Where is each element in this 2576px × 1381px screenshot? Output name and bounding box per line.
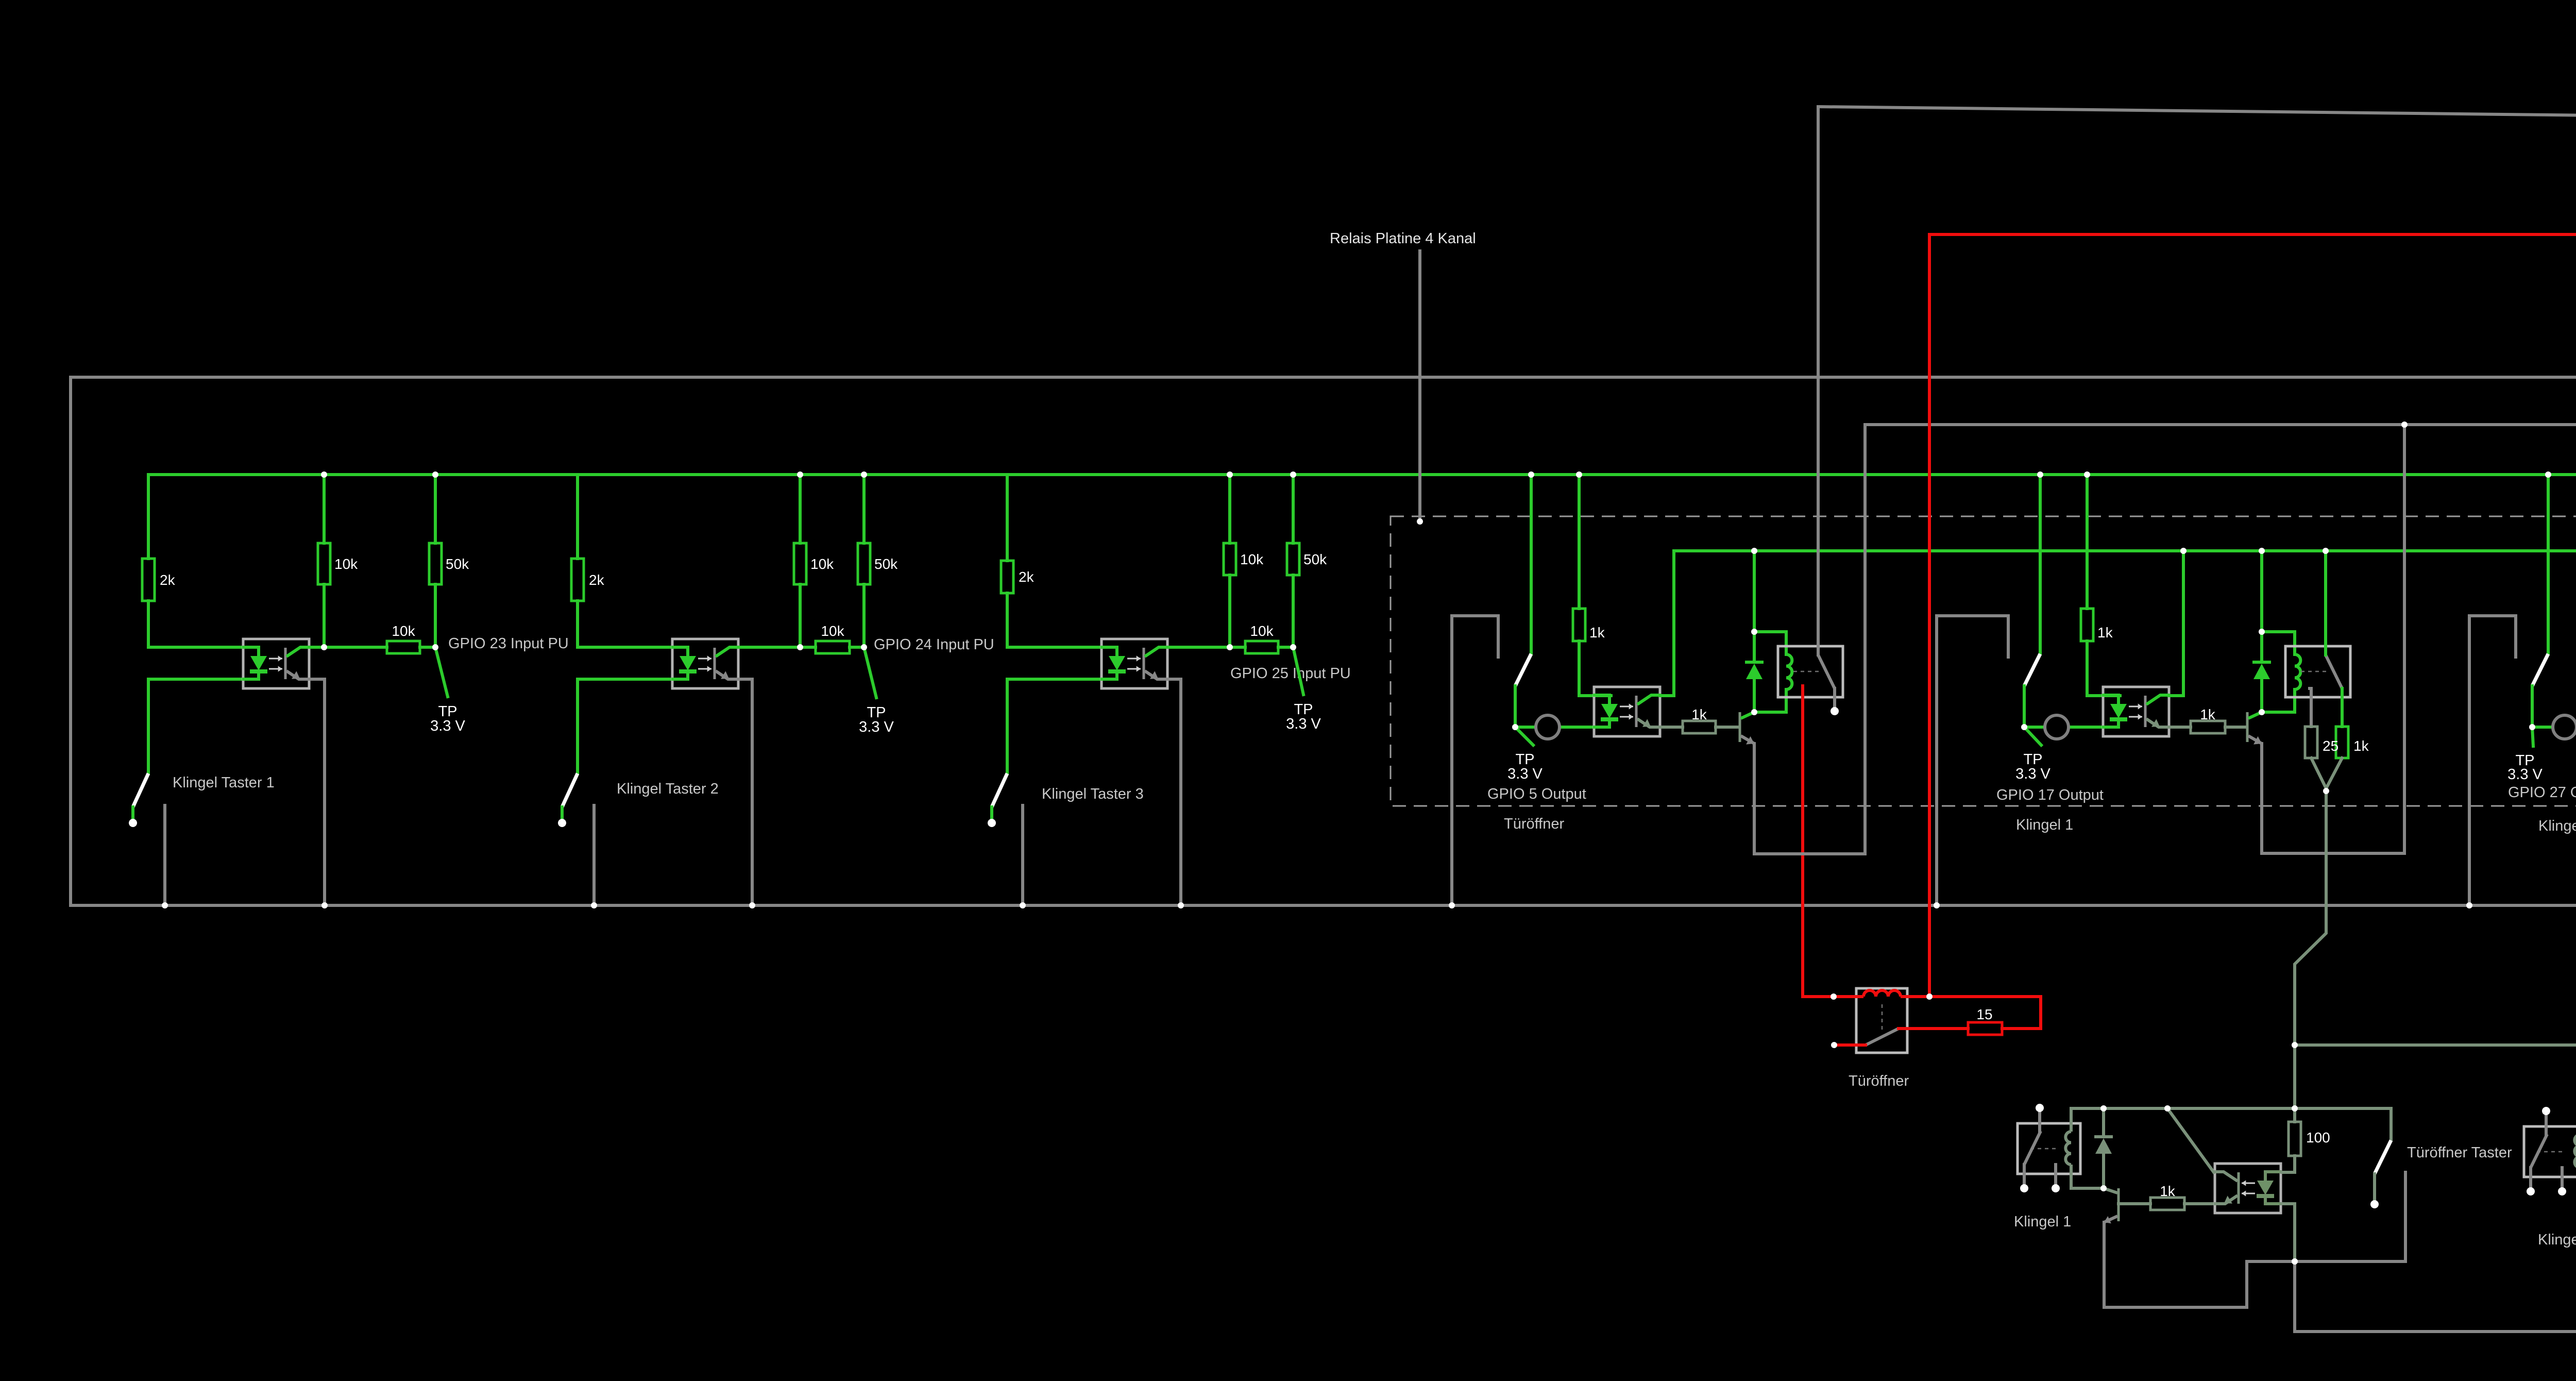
svg-text:GPIO 24 Input PU: GPIO 24 Input PU	[874, 636, 994, 653]
wire switch riser ch1	[1530, 475, 1533, 654]
svg-text:1k: 1k	[2353, 738, 2369, 754]
wire relay lever stub K1	[2023, 1165, 2026, 1185]
label TP voltage ch1	[1507, 766, 1543, 782]
svg-text:3.3 V: 3.3 V	[859, 719, 894, 735]
label TP ch1	[1515, 751, 1534, 768]
svg-text:1k: 1k	[1691, 706, 1707, 722]
node diode bottom K1	[2100, 1185, 2107, 1191]
wire 2k to opto LED KT2	[578, 601, 672, 647]
node bus junction 1k ch2	[2084, 471, 2090, 478]
wire ch2 output drop	[2295, 791, 2326, 1108]
svg-text:Klingel 2: Klingel 2	[2538, 818, 2576, 834]
svg-text:10k: 10k	[1250, 623, 1274, 639]
resistor 2k KT3	[1001, 561, 1035, 593]
node relay pin lever K1	[2020, 1184, 2028, 1192]
resistor 15	[1968, 1006, 2002, 1035]
wire diode bottom K1	[2102, 1154, 2105, 1188]
node GND5V junction ch2	[2401, 422, 2408, 428]
wire opto cathode to switch KT2	[578, 679, 672, 773]
resistor 25 output ch2	[2305, 727, 2338, 758]
wire 3.3V bus	[148, 473, 2576, 476]
wire test point lead KT3	[1293, 647, 1303, 695]
switch lever GPIO output ch3	[2532, 654, 2548, 686]
label TP voltage KT1	[430, 718, 465, 734]
resistor 1k LED ch1	[1573, 609, 1605, 641]
svg-text:3.3 V: 3.3 V	[430, 718, 465, 734]
wire emitter return U ch1	[1754, 425, 1865, 854]
node switch open post KT3	[988, 819, 996, 827]
diode flyback D1	[1745, 662, 1764, 679]
svg-text:1k: 1k	[1589, 625, 1605, 641]
label Tueroeffner relay	[1849, 1073, 1909, 1089]
wire coil bottom ch2	[2262, 689, 2295, 712]
node collector ch2	[2259, 709, 2265, 715]
svg-text:15: 15	[1976, 1006, 1992, 1022]
wire emitter return U ch2	[2262, 425, 2404, 853]
optocoupler U5 ch2	[2102, 687, 2170, 736]
relay coil ch1	[1786, 654, 1792, 689]
node diode top ch1	[1751, 629, 1757, 635]
node sense KT1	[321, 644, 327, 650]
wire 50k to GPIO node KT1	[434, 584, 437, 647]
test point probe ch1	[1536, 715, 1560, 739]
node bus junction switch ch3	[2545, 471, 2551, 478]
label Tueroeffner Taster 1	[2407, 1144, 2512, 1161]
node TP node ch3	[2529, 724, 2535, 730]
node 3.3V bus junction 10k KT1	[321, 471, 327, 478]
node relay pin top K1	[2036, 1104, 2044, 1112]
wire 1k to LED ch1	[1579, 641, 1611, 696]
switch lever Klingel Taster 3	[992, 773, 1007, 807]
svg-text:2k: 2k	[160, 572, 176, 588]
svg-text:GPIO 27 Output: GPIO 27 Output	[2508, 784, 2576, 801]
wire coil branch ch2	[2262, 632, 2295, 654]
wire diode feed ch2	[2260, 551, 2263, 632]
label Klingel Taster 1	[173, 774, 275, 791]
svg-text:Türöffner: Türöffner	[1849, 1073, 1909, 1089]
node bus junction diode ch2	[2259, 548, 2265, 554]
resistor 1k output ch2	[2336, 727, 2369, 758]
relay coil K2 bell	[2574, 1111, 2576, 1191]
node K1 cluster node	[2292, 1258, 2298, 1265]
wire relay NO stub ch1	[1833, 688, 1836, 707]
node K1 rail junction feed	[2292, 1105, 2298, 1111]
relay K1 bell	[2018, 1123, 2080, 1174]
resistor 100 K1	[2289, 1122, 2330, 1156]
node 3.3V bus junction 10k KT2	[797, 471, 803, 478]
wire 10k column KT2	[799, 475, 802, 543]
wire rail to opto diagonal K1	[2167, 1108, 2214, 1172]
wire relay lever stub K2	[2529, 1168, 2532, 1188]
wire 12V GND sloped	[1818, 107, 2576, 172]
wire base K1	[2119, 1202, 2150, 1205]
relay coil Tueroeffner	[1834, 990, 1929, 997]
wire relay NC stub K1	[2054, 1165, 2057, 1185]
wire switch throw L ch1	[1452, 616, 1498, 905]
wire switch throw to GND KT1	[163, 805, 166, 905]
wire 1k column ch1	[1578, 475, 1581, 609]
wire switch stub ch3	[2531, 686, 2534, 724]
wire switch throw to GND KT3	[1021, 805, 1024, 905]
optocoupler U3 KT3	[1100, 639, 1168, 688]
wire sense to 10k series KT3	[1230, 646, 1245, 649]
relay coil ch2	[2295, 654, 2300, 689]
svg-text:2k: 2k	[589, 572, 605, 588]
box Relais Platine 4 Kanal	[1391, 516, 2576, 806]
label TP voltage ch2	[2015, 766, 2050, 782]
resistor 1k base ch2	[2191, 706, 2225, 733]
label GPIO output ch1	[1487, 786, 1586, 802]
resistor 2k KT2	[571, 559, 605, 601]
wire switch throw L ch3	[2469, 616, 2516, 905]
node 3.3V bus junction 50k KT3	[1290, 471, 1296, 478]
svg-text:Klingel Taster 3: Klingel Taster 3	[1042, 786, 1144, 802]
wire emitter to base resistor ch2	[2170, 726, 2191, 729]
svg-text:Relais Platine 4 Kanal: Relais Platine 4 Kanal	[1330, 230, 1476, 247]
wire TT stub K1	[2373, 1174, 2376, 1201]
node Relais Platine label post	[1417, 518, 1423, 525]
wire merge V ch2	[2311, 758, 2342, 788]
wire diode feed ch1	[1753, 551, 1756, 632]
svg-text:Klingel 1: Klingel 1	[2014, 1214, 2071, 1230]
node merge ch2	[2323, 788, 2329, 794]
wire diode column ch1	[1753, 632, 1756, 662]
wire relay NC stub K2	[2561, 1168, 2564, 1188]
wire switch stub ch1	[1514, 686, 1517, 724]
svg-text:3.3 V: 3.3 V	[2507, 766, 2543, 783]
wire diode column ch2	[2260, 632, 2263, 662]
node bus junction riser ch2	[2180, 548, 2187, 554]
relay K2	[2285, 646, 2350, 697]
wire collector riser ch2	[2169, 551, 2183, 696]
wire coil branch ch1	[1754, 632, 1786, 654]
label TP voltage ch3	[2507, 766, 2543, 783]
wire NO loop with 15 ohm	[1899, 1027, 1968, 1030]
wire 10k series to GPIO KT3	[1278, 646, 1293, 649]
label TP voltage KT2	[859, 719, 894, 735]
resistor 10k pullup KT3	[1224, 543, 1264, 575]
label TP KT3	[1294, 701, 1313, 718]
node GND rail junction emitter KT2	[749, 902, 755, 908]
wire 3.3V to 2k KT2	[576, 475, 579, 559]
wire opto emitter drop KT1	[310, 679, 325, 905]
svg-text:Klingel 1: Klingel 1	[2016, 817, 2073, 833]
transistor Q1	[1740, 712, 1754, 745]
wire 10k to sense node KT3	[1228, 575, 1231, 647]
transistor Q K1	[2104, 1188, 2119, 1223]
label GPIO 24 Input PU	[874, 636, 994, 653]
label Klingel Taster 3	[1042, 786, 1144, 802]
label Relais Platine 4 Kanal	[1330, 230, 1476, 247]
label Klingel bell 1	[2014, 1214, 2071, 1230]
svg-text:10k: 10k	[334, 556, 358, 572]
wire diode to collector ch1	[1753, 679, 1756, 712]
wire 50k to GPIO node KT2	[862, 584, 866, 647]
wire 2k to opto LED KT3	[1007, 593, 1101, 647]
resistor 10k series KT1	[387, 623, 420, 653]
label channel function ch2	[2016, 817, 2073, 833]
node rail junction diagonal K1	[2164, 1105, 2171, 1111]
wire relay common ch2	[2324, 551, 2327, 655]
wire GND 5V rail	[1865, 423, 2576, 426]
wire switch stub KT3	[990, 807, 993, 820]
svg-text:GPIO 17 Output: GPIO 17 Output	[1996, 787, 2104, 803]
switch lever Tueroeffner Taster 1	[2375, 1140, 2391, 1174]
wire 10k to sense node KT1	[323, 584, 326, 647]
svg-text:3.3 V: 3.3 V	[2015, 766, 2050, 782]
wire TP lead ch1	[1515, 727, 1533, 745]
wire 50k column KT2	[862, 475, 866, 543]
resistor 50k KT1	[429, 543, 469, 584]
node switch open post KT1	[129, 819, 137, 827]
wire diode feed K1	[2102, 1108, 2105, 1137]
resistor 10k series KT2	[816, 623, 850, 653]
wire TP node to opto ch2	[2024, 726, 2103, 729]
optocoupler U4 ch1	[1593, 687, 1661, 736]
node relay pin NC K1	[2052, 1184, 2060, 1192]
wire node to throw K1	[2295, 1172, 2405, 1261]
wire 10k series to GPIO KT2	[850, 646, 864, 649]
node TP node ch2	[2021, 724, 2027, 730]
wire sense to 10k series KT1	[324, 646, 387, 649]
label GPIO 23 Input PU	[448, 635, 569, 652]
wire relay common ch1	[1817, 107, 1820, 655]
wire 12V positive	[1929, 184, 2576, 997]
wire GND left border	[69, 377, 72, 905]
wire 50k to GPIO node KT3	[1292, 575, 1295, 647]
wire 1k to LED ch2	[2087, 641, 2120, 696]
wire opto cathode to switch KT1	[148, 679, 243, 773]
node sense KT2	[797, 644, 803, 650]
wire NO loop right	[1929, 997, 2041, 1029]
wire opto emitter drop KT2	[739, 679, 752, 905]
wire emitter shelf K1	[2104, 1222, 2295, 1307]
node 3.3V bus junction 50k KT1	[432, 471, 438, 478]
test point probe ch3	[2553, 715, 2576, 739]
relay coil K1 bell	[2065, 1108, 2104, 1188]
label channel function ch3	[2538, 818, 2576, 834]
label TP voltage KT3	[1286, 716, 1321, 732]
label Klingel bell 2	[2538, 1232, 2576, 1248]
wire node drop to bottom rail K1	[2293, 1261, 2296, 1332]
wire relay pin top stub K1	[2038, 1108, 2041, 1132]
node GND rail junction ch3	[2466, 902, 2472, 908]
node relay common Tueroeffner	[1831, 1042, 1837, 1048]
relay K2 bell	[2524, 1126, 2576, 1177]
wire relay NO to 1k ch2	[2341, 688, 2344, 727]
node coil right	[1926, 993, 1933, 1000]
svg-text:1k: 1k	[2200, 706, 2216, 722]
svg-text:25: 25	[2323, 738, 2338, 754]
relay Tueroeffner	[1856, 988, 1907, 1053]
label TP ch2	[2023, 751, 2042, 768]
svg-text:Klingel Taster 1: Klingel Taster 1	[173, 774, 275, 791]
wire switch stub KT2	[561, 807, 564, 820]
node bus junction switch ch1	[1528, 471, 1534, 478]
wire 3.3V to 2k KT1	[147, 475, 150, 559]
wire relay NC to 25 ch2	[2310, 688, 2311, 727]
wire label Relais Platine lead	[1418, 251, 1421, 521]
node bus junction switch ch2	[2037, 471, 2043, 478]
resistor 50k KT2	[858, 543, 898, 584]
resistor 1k base K1	[2150, 1183, 2184, 1210]
wire TP lead ch2	[2024, 727, 2041, 745]
wire 5V bus	[1674, 549, 2576, 552]
svg-text:Türöffner: Türöffner	[1504, 816, 1564, 832]
node relay pin lever K2	[2527, 1187, 2535, 1195]
svg-text:GPIO 25 Input PU: GPIO 25 Input PU	[1230, 665, 1351, 682]
wire opto collector to node KT1	[309, 646, 324, 649]
node GPIO input KT2	[861, 644, 867, 650]
wire 10k to sense node KT2	[799, 584, 802, 647]
wire 50k column KT1	[434, 475, 437, 543]
wire 2k to opto LED KT1	[148, 601, 243, 647]
label GPIO output ch2	[1996, 787, 2104, 803]
node TT post K1	[2370, 1200, 2379, 1208]
wire 10k column KT3	[1228, 475, 1231, 543]
optocoupler K1 bell	[2214, 1164, 2282, 1213]
wire sense to 10k series KT2	[800, 646, 816, 649]
node sense KT3	[1227, 644, 1233, 650]
switch lever GPIO output ch1	[1515, 654, 1531, 686]
wire test point lead KT1	[435, 647, 448, 697]
node switch open post KT2	[558, 819, 566, 827]
wire emitter to base resistor ch1	[1661, 726, 1683, 729]
label GPIO output ch3	[2508, 784, 2576, 801]
wire switch stub ch2	[2023, 686, 2026, 724]
svg-text:10k: 10k	[1240, 551, 1264, 567]
switch lever Klingel Taster 1	[133, 773, 148, 807]
wire collector riser ch1	[1660, 551, 1674, 696]
node rail junction diode K1	[2100, 1105, 2107, 1111]
svg-text:50k: 50k	[1303, 551, 1327, 567]
svg-text:GPIO 5 Output: GPIO 5 Output	[1487, 786, 1586, 802]
resistor 10k pullup KT1	[318, 543, 358, 584]
resistor 50k KT3	[1287, 543, 1327, 575]
wire switch riser ch2	[2039, 475, 2042, 654]
svg-text:50k: 50k	[446, 556, 469, 572]
node relay NO open ch1	[1831, 707, 1839, 715]
svg-text:1k: 1k	[2160, 1183, 2176, 1199]
node bus junction diode ch1	[1751, 548, 1757, 554]
label TP ch3	[2515, 752, 2534, 769]
node GND rail junction emitter KT1	[321, 902, 328, 908]
wire 10k column KT1	[323, 475, 326, 543]
label channel function ch1	[1504, 816, 1564, 832]
wire base resistor to transistor ch1	[1716, 726, 1739, 729]
wire switch throw L ch2	[1937, 616, 2008, 905]
wire base to opto K1	[2184, 1202, 2215, 1205]
switch lever GPIO output ch2	[2024, 654, 2040, 686]
label TP KT2	[867, 704, 886, 721]
svg-text:10k: 10k	[821, 623, 844, 639]
node collector ch1	[1751, 709, 1757, 715]
wire relay pin top stub K2	[2545, 1111, 2548, 1135]
wire base resistor to transistor ch2	[2225, 726, 2246, 729]
resistor 10k series KT3	[1245, 623, 1278, 653]
test point probe ch2	[2045, 715, 2069, 739]
switch lever Klingel Taster 2	[562, 773, 578, 807]
node cluster node K1	[2292, 1258, 2298, 1265]
resistor 10k pullup KT2	[794, 543, 834, 584]
svg-text:1k: 1k	[2097, 625, 2113, 641]
wire opto collector to node KT2	[738, 646, 800, 649]
wire relay common stub	[1834, 1043, 1866, 1047]
label TP KT1	[438, 703, 457, 720]
node GND rail junction L KT3	[1020, 902, 1026, 908]
svg-text:Türöffner Taster: Türöffner Taster	[2407, 1144, 2512, 1161]
node GPIO input KT1	[432, 644, 438, 650]
optocoupler U2 KT2	[671, 639, 739, 688]
wire 50k column KT3	[1292, 475, 1295, 543]
node diode top ch2	[2259, 629, 2265, 635]
wire red to relay coil	[1803, 995, 1834, 998]
diode flyback D2	[2252, 662, 2271, 679]
node TP node ch1	[1512, 724, 1518, 730]
wire TP lead ch3	[2532, 727, 2533, 746]
svg-text:3.3 V: 3.3 V	[1286, 716, 1321, 732]
resistor 1k LED ch2	[2081, 609, 2113, 641]
resistor 2k KT1	[142, 559, 176, 601]
node GND rail junction emitter KT3	[1178, 902, 1184, 908]
wire opto emitter drop KT3	[1168, 679, 1181, 905]
wire switch stub KT1	[131, 807, 134, 820]
optocoupler U1 KT1	[242, 639, 310, 688]
node bus junction 1k ch1	[1576, 471, 1582, 478]
svg-text:50k: 50k	[874, 556, 898, 572]
wire bottom node rail	[2295, 1261, 2576, 1332]
wire 1k column ch2	[2086, 475, 2089, 609]
wire feed into 100 K1	[2293, 1108, 2296, 1122]
wire test point lead KT2	[864, 647, 876, 698]
wire GND bottom rail	[71, 904, 2576, 907]
label GPIO 25 Input PU	[1230, 665, 1351, 682]
resistor 1k base ch1	[1683, 706, 1716, 733]
relay K1	[1778, 646, 1843, 697]
svg-text:Klingel Taster 2: Klingel Taster 2	[617, 781, 719, 797]
svg-text:GPIO 23 Input PU: GPIO 23 Input PU	[448, 635, 569, 652]
svg-text:10k: 10k	[810, 556, 834, 572]
wire TP node to opto ch3	[2532, 726, 2576, 729]
wire relay common to 12V gnd ch1	[1817, 107, 1820, 655]
svg-text:3.3 V: 3.3 V	[1507, 766, 1543, 782]
wire 3.3V to 2k KT3	[1006, 475, 1009, 561]
node GND rail junction L KT1	[162, 902, 168, 908]
wire relay NC red drop ch1	[1801, 686, 1804, 997]
wire opto cathode to switch KT3	[1007, 679, 1101, 773]
label Klingel Taster 2	[617, 781, 719, 797]
wire switch throw to GND KT2	[592, 805, 596, 905]
node 3.3V bus junction 50k KT2	[861, 471, 867, 478]
diode flyback K1	[2094, 1137, 2113, 1154]
svg-text:2k: 2k	[1019, 569, 1035, 585]
node 3.3V bus junction 10k KT3	[1227, 471, 1233, 478]
svg-text:100: 100	[2306, 1130, 2330, 1146]
node relay pin top K2	[2542, 1107, 2550, 1115]
node GPIO input KT3	[1290, 644, 1296, 650]
wire C feed	[2295, 1043, 2576, 1047]
wire cluster rail K1	[2071, 1107, 2391, 1110]
svg-text:Klingel 2: Klingel 2	[2538, 1232, 2576, 1248]
node bus junction relay common ch2	[2323, 548, 2329, 554]
wire GND 3,3V rail top	[71, 376, 2576, 379]
transistor Q2	[2247, 712, 2262, 745]
svg-text:10k: 10k	[392, 623, 415, 639]
node GND rail junction L KT2	[591, 902, 597, 908]
wire 10k series to GPIO KT1	[420, 646, 435, 649]
wire diode to collector ch2	[2260, 679, 2263, 712]
wire LED cathode drop K1	[2282, 1204, 2295, 1261]
